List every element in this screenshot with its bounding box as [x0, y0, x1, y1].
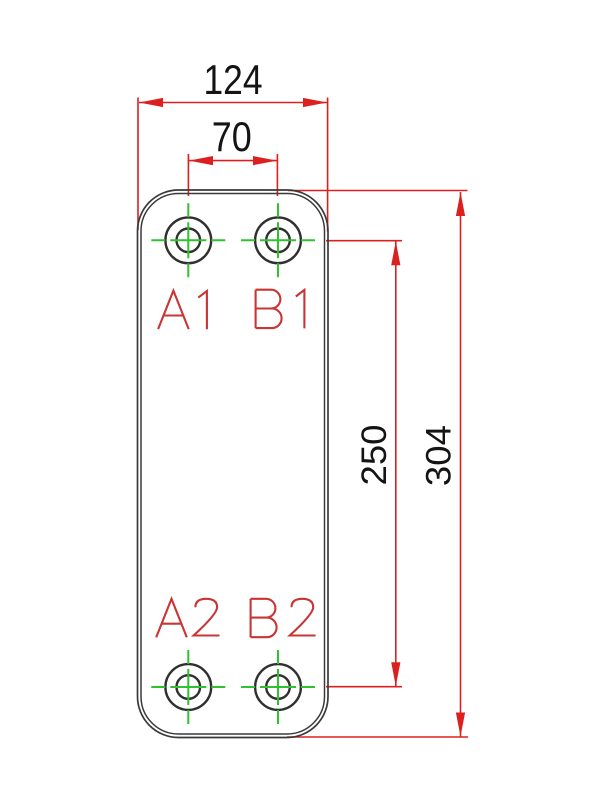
- svg-text:124: 124: [204, 57, 263, 103]
- svg-text:70: 70: [212, 114, 252, 160]
- svg-text:250: 250: [354, 425, 394, 486]
- svg-text:304: 304: [418, 425, 458, 486]
